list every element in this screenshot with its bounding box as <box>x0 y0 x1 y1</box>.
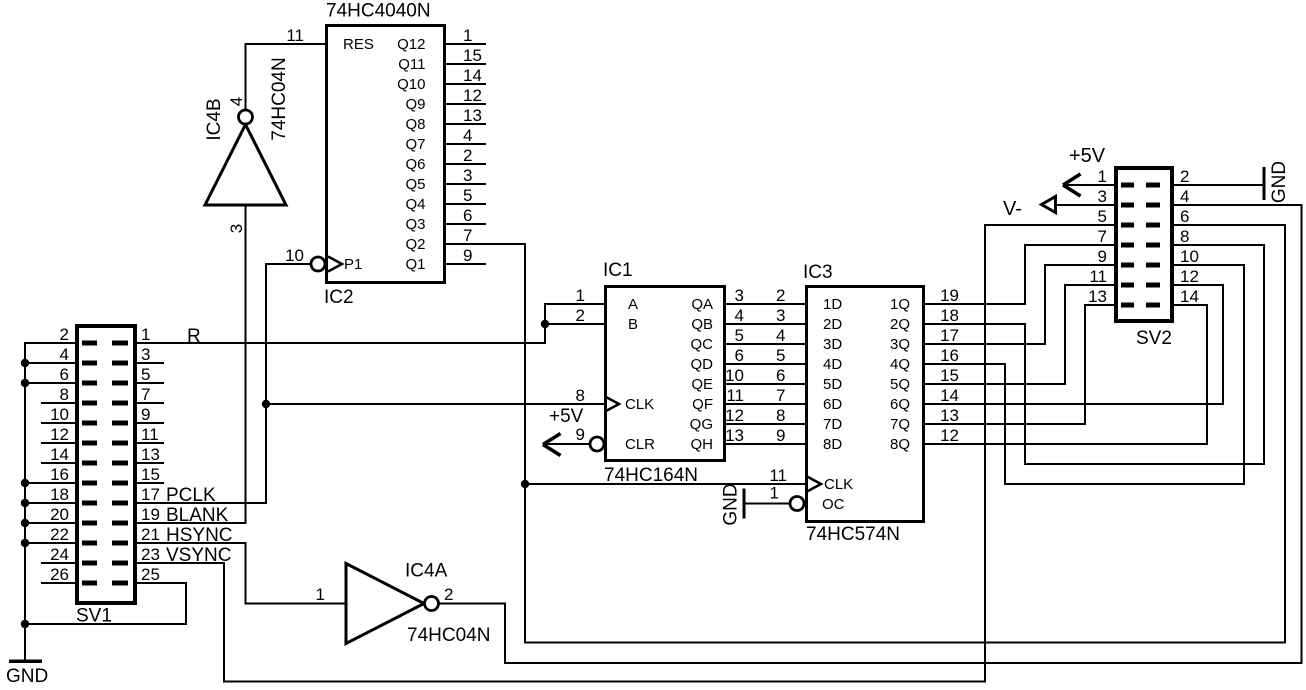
svg-text:2: 2 <box>576 306 585 325</box>
svg-text:QG: QG <box>690 416 713 433</box>
IC IC2 74HC4040N counter box <box>327 26 445 283</box>
IC IC1 74HC164N shift register box <box>606 287 725 461</box>
wire net HSYNC: SV1 pin21 to IC4A input pin1 <box>137 543 346 604</box>
svg-text:R: R <box>187 326 201 347</box>
svg-text:Q9: Q9 <box>405 96 425 113</box>
svg-text:Q8: Q8 <box>405 116 425 133</box>
svg-text:16: 16 <box>940 346 959 365</box>
svg-text:4D: 4D <box>823 356 842 373</box>
svg-text:12: 12 <box>940 426 959 445</box>
IC3 output pin numbers 19-12 <box>940 286 959 445</box>
svg-text:CLK: CLK <box>824 476 853 493</box>
svg-text:HSYNC: HSYNC <box>166 525 233 546</box>
svg-text:+5V: +5V <box>1069 145 1106 167</box>
svg-text:10: 10 <box>725 366 744 385</box>
svg-text:74HC164N: 74HC164N <box>604 465 698 486</box>
SV1 right pin numbers <box>141 325 160 584</box>
SV1 unconnected left stubs 8,10,12,14,24,26 <box>41 403 75 583</box>
SV1 right stubs pins 3-15 <box>137 363 164 483</box>
junctions on ground rail <box>21 359 29 547</box>
svg-text:IC2: IC2 <box>324 287 354 308</box>
svg-text:3: 3 <box>735 286 744 305</box>
IC3 input pin numbers 2,3,4,5,6,7,8,9 <box>776 286 785 445</box>
IC1 output pin numbers 3,4,5,6,10,11,12,13 <box>725 286 744 445</box>
svg-text:BLANK: BLANK <box>166 505 229 526</box>
svg-text:8D: 8D <box>823 436 842 453</box>
svg-text:3: 3 <box>463 166 472 185</box>
svg-text:7: 7 <box>1098 227 1107 246</box>
svg-text:IC1: IC1 <box>603 260 633 281</box>
svg-text:19: 19 <box>940 286 959 305</box>
svg-text:4: 4 <box>1180 187 1189 206</box>
wire net R: SV1 pin1 to IC1 A pin1 <box>137 304 604 343</box>
svg-text:24: 24 <box>50 545 69 564</box>
svg-text:6: 6 <box>60 365 69 384</box>
wire IC3 7Q pin13 to SV2 pin13 <box>925 305 1114 424</box>
svg-text:3: 3 <box>776 306 785 325</box>
svg-text:4: 4 <box>463 126 472 145</box>
SV2 left pin numbers <box>1088 167 1107 306</box>
svg-text:11: 11 <box>286 26 304 45</box>
svg-text:22: 22 <box>50 525 69 544</box>
svg-text:6: 6 <box>463 206 472 225</box>
junction ground rail pin25 <box>21 620 29 628</box>
svg-text:PCLK: PCLK <box>166 485 216 506</box>
svg-text:2D: 2D <box>823 316 842 333</box>
svg-text:IC4B: IC4B <box>204 98 225 140</box>
connector SV1 box <box>77 326 135 603</box>
svg-text:RES: RES <box>343 36 374 53</box>
IC2 output stubs Q12-Q3,Q1 <box>446 44 486 264</box>
svg-text:3Q: 3Q <box>890 336 910 353</box>
svg-text:6D: 6D <box>823 396 842 413</box>
wire IC4A output around bottom to SV2 pin4 <box>439 205 1302 663</box>
wire IC3 1Q pin19 to SV2 pin7 <box>925 245 1114 304</box>
connector SV2 box <box>1116 168 1172 321</box>
svg-text:2: 2 <box>463 146 472 165</box>
IC2 output pin names Q12-Q1 <box>397 36 425 273</box>
svg-text:10: 10 <box>1180 247 1199 266</box>
svg-text:7D: 7D <box>823 416 842 433</box>
IC4A output bubble pin 2 <box>425 597 439 611</box>
svg-text:VSYNC: VSYNC <box>166 545 231 566</box>
svg-text:QC: QC <box>691 336 714 353</box>
svg-text:Q3: Q3 <box>405 216 425 233</box>
svg-text:QF: QF <box>692 396 713 413</box>
wire net Q2 divider: IC2 Q2 pin7 around bottom to SV2 pin6 <box>446 225 1285 643</box>
svg-text:8Q: 8Q <box>890 436 910 453</box>
svg-text:5D: 5D <box>823 376 842 393</box>
wire net VSYNC: SV1 pin23 around bottom to SV2 pin5 <box>137 225 1114 682</box>
svg-text:GND: GND <box>1269 161 1290 203</box>
svg-text:2: 2 <box>60 325 69 344</box>
svg-text:SV2: SV2 <box>1136 328 1172 349</box>
svg-text:11: 11 <box>726 386 744 405</box>
IC3 input pin names 1D-8D <box>823 296 842 453</box>
svg-text:13: 13 <box>940 406 959 425</box>
svg-text:Q1: Q1 <box>405 256 425 273</box>
svg-text:3D: 3D <box>823 336 842 353</box>
svg-text:CLR: CLR <box>625 436 655 453</box>
svg-text:13: 13 <box>1088 287 1107 306</box>
svg-text:9: 9 <box>463 246 472 265</box>
svg-text:GND: GND <box>721 483 742 525</box>
svg-text:5: 5 <box>1098 207 1107 226</box>
svg-text:Q12: Q12 <box>397 36 425 53</box>
SV1 left pin numbers <box>50 325 69 584</box>
svg-text:3: 3 <box>1098 187 1107 206</box>
svg-text:8: 8 <box>576 386 585 405</box>
SV1 grounded pin stubs 4,6,16,18,20,22 <box>25 363 75 543</box>
svg-text:12: 12 <box>725 406 744 425</box>
svg-text:2: 2 <box>776 286 785 305</box>
svg-text:14: 14 <box>1180 287 1199 306</box>
svg-text:13: 13 <box>141 445 160 464</box>
svg-text:15: 15 <box>463 46 482 65</box>
svg-text:6: 6 <box>1180 207 1189 226</box>
wire net PCLK: SV1 pin17 up to IC2 P1 pin10 <box>137 264 311 503</box>
svg-text:8: 8 <box>776 406 785 425</box>
IC1 clock wedge CLK <box>605 397 619 412</box>
svg-text:5: 5 <box>735 326 744 345</box>
svg-text:Q10: Q10 <box>397 76 425 93</box>
svg-text:4Q: 4Q <box>890 356 910 373</box>
svg-text:1: 1 <box>141 325 150 344</box>
svg-text:1: 1 <box>770 484 779 503</box>
svg-text:1: 1 <box>576 286 585 305</box>
svg-text:SV1: SV1 <box>76 606 112 627</box>
svg-text:3: 3 <box>141 345 150 364</box>
svg-text:14: 14 <box>940 386 959 405</box>
svg-text:74HC04N: 74HC04N <box>269 57 290 140</box>
svg-text:1Q: 1Q <box>890 296 910 313</box>
svg-text:6Q: 6Q <box>890 396 910 413</box>
svg-text:12: 12 <box>463 86 482 105</box>
svg-text:Q5: Q5 <box>405 176 425 193</box>
supply V- open arrow at SV2 pin3 <box>1042 197 1115 213</box>
svg-text:19: 19 <box>141 505 160 524</box>
svg-text:V-: V- <box>1003 198 1022 220</box>
svg-text:17: 17 <box>940 326 959 345</box>
wire GND to IC3 OC <box>744 503 790 505</box>
wire SV1 pin25 to ground rail <box>25 583 186 624</box>
svg-text:IC3: IC3 <box>803 262 833 283</box>
IC3 OC inversion bubble pin 1 <box>790 497 804 511</box>
IC1 CLR inversion bubble pin 9 <box>590 437 604 451</box>
IC2 P1 inversion bubble <box>311 257 325 271</box>
svg-text:5: 5 <box>463 186 472 205</box>
svg-text:13: 13 <box>725 426 744 445</box>
svg-text:1D: 1D <box>823 296 842 313</box>
svg-text:9: 9 <box>141 405 150 424</box>
junction R branch at B <box>541 320 549 328</box>
svg-text:74HC04N: 74HC04N <box>407 625 490 646</box>
svg-text:21: 21 <box>141 525 160 544</box>
power +5V arrow at IC1 CLR <box>543 434 590 456</box>
wire IC1 clock net to IC3 CLK pin 11 <box>525 483 806 485</box>
svg-text:10: 10 <box>50 405 69 424</box>
svg-text:GND: GND <box>6 666 48 687</box>
IC IC3 74HC574N flip-flop box <box>807 287 924 522</box>
svg-text:9: 9 <box>576 425 585 444</box>
svg-text:4: 4 <box>227 97 246 106</box>
svg-text:QE: QE <box>691 376 713 393</box>
svg-text:7: 7 <box>776 386 785 405</box>
wire IC3 4Q pin16 to SV2 pin10 <box>925 265 1244 484</box>
svg-text:13: 13 <box>463 106 482 125</box>
svg-text:2: 2 <box>1180 167 1189 186</box>
svg-text:25: 25 <box>141 565 160 584</box>
svg-text:5: 5 <box>776 346 785 365</box>
ground symbol GND at IC3 OC bar <box>743 489 746 519</box>
svg-text:+5V: +5V <box>549 406 584 427</box>
svg-text:Q2: Q2 <box>405 236 425 253</box>
wire IC3 8Q pin12 to SV2 pin14 <box>925 305 1207 444</box>
svg-text:7: 7 <box>463 226 472 245</box>
junction clock net at divider vertical <box>521 480 529 488</box>
SV2 right pin numbers <box>1180 167 1199 306</box>
svg-text:OC: OC <box>822 496 845 513</box>
svg-text:5: 5 <box>141 365 150 384</box>
wire IC3 6Q pin14 to SV2 pin12 <box>925 285 1223 404</box>
svg-text:12: 12 <box>1180 267 1199 286</box>
svg-text:11: 11 <box>141 425 159 444</box>
svg-text:8: 8 <box>60 385 69 404</box>
svg-text:A: A <box>628 296 638 313</box>
SV1 pin contact dashes <box>82 341 128 586</box>
svg-text:2: 2 <box>444 585 453 604</box>
svg-text:4: 4 <box>60 345 69 364</box>
inverter IC4B 74HC04N triangle <box>205 125 286 206</box>
svg-text:Q7: Q7 <box>405 136 425 153</box>
wire SV2 pin2 to GND <box>1174 184 1264 186</box>
svg-text:1: 1 <box>463 26 472 45</box>
wire IC3 3Q pin17 to SV2 pin9 <box>925 265 1114 344</box>
svg-text:7: 7 <box>141 385 150 404</box>
svg-text:CLK: CLK <box>625 396 654 413</box>
svg-text:B: B <box>628 316 638 333</box>
svg-text:9: 9 <box>1098 247 1107 266</box>
svg-text:QH: QH <box>691 436 714 453</box>
svg-text:QA: QA <box>691 296 713 313</box>
svg-text:Q4: Q4 <box>405 196 425 213</box>
svg-text:11: 11 <box>769 466 787 485</box>
svg-text:26: 26 <box>50 565 69 584</box>
svg-text:IC4A: IC4A <box>405 561 448 582</box>
svg-text:8: 8 <box>1180 227 1189 246</box>
svg-text:1: 1 <box>1098 167 1107 186</box>
svg-text:15: 15 <box>141 465 160 484</box>
svg-text:11: 11 <box>1089 267 1107 286</box>
wire net BLANK: SV1 pin19 to IC4B input <box>137 205 246 523</box>
IC2 clock wedge P1 <box>328 257 342 272</box>
svg-text:9: 9 <box>776 426 785 445</box>
svg-text:6: 6 <box>735 346 744 365</box>
inverter IC4A 74HC04N triangle <box>346 564 424 644</box>
IC2 output pin numbers <box>463 26 482 265</box>
svg-text:5Q: 5Q <box>890 376 910 393</box>
svg-text:23: 23 <box>141 545 160 564</box>
svg-text:4: 4 <box>735 306 744 325</box>
svg-text:18: 18 <box>50 485 69 504</box>
svg-text:74HC4040N: 74HC4040N <box>326 1 431 22</box>
wire IC3 2Q pin18 to SV2 pin8 <box>925 245 1264 464</box>
svg-text:16: 16 <box>50 465 69 484</box>
svg-text:20: 20 <box>50 505 69 524</box>
svg-text:15: 15 <box>940 366 959 385</box>
wires IC1 QA-QH to IC3 1D-8D <box>726 304 805 444</box>
svg-text:QB: QB <box>691 316 713 333</box>
svg-text:1: 1 <box>316 585 325 604</box>
svg-text:4: 4 <box>776 326 785 345</box>
wire IC4B output to IC2 RES pin 11 <box>246 44 326 110</box>
IC3 output pin names 1Q-8Q <box>890 296 910 453</box>
svg-text:7Q: 7Q <box>890 416 910 433</box>
svg-text:74HC574N: 74HC574N <box>806 524 900 545</box>
IC1 output pin names QA-QH <box>690 296 714 453</box>
power +5V arrow at SV2 pin1 <box>1063 174 1114 196</box>
svg-text:17: 17 <box>141 485 160 504</box>
IC3 clock wedge CLK <box>807 477 821 492</box>
svg-text:10: 10 <box>285 246 304 265</box>
svg-text:14: 14 <box>50 445 69 464</box>
wire branch R to IC1 B pin 2 <box>545 323 604 325</box>
svg-text:6: 6 <box>776 366 785 385</box>
ground symbol GND bottom-left bar <box>9 659 42 663</box>
svg-text:18: 18 <box>940 306 959 325</box>
svg-text:Q11: Q11 <box>398 56 425 73</box>
svg-text:P1: P1 <box>344 256 362 273</box>
svg-text:2Q: 2Q <box>890 316 910 333</box>
ground symbol GND at SV2 pin2 bar <box>1263 167 1266 200</box>
wire IC3 5Q pin15 to SV2 pin11 <box>925 285 1114 384</box>
svg-text:3: 3 <box>227 224 246 233</box>
svg-text:QD: QD <box>691 356 714 373</box>
svg-text:12: 12 <box>50 425 69 444</box>
SV2 pin contact dashes <box>1121 183 1160 308</box>
svg-text:14: 14 <box>463 66 482 85</box>
ground rail left vertical with SV1 pin2 stub <box>25 343 75 661</box>
svg-text:Q6: Q6 <box>405 156 425 173</box>
IC4B output bubble pin 4 <box>239 110 253 124</box>
wire branch PCLK to IC1 CLK pin 8 <box>266 403 604 405</box>
junction PCLK branch <box>262 400 270 408</box>
